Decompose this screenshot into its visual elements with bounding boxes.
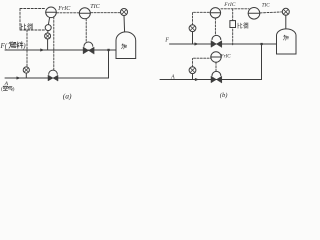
wire: (a) upper pipe flow arrowhead <box>41 49 44 51</box>
svg-text:FrIC: FrIC <box>57 6 71 12</box>
wire: (b) upper pipe arrowhead <box>195 43 198 45</box>
furnace vessel (b) <box>277 29 297 54</box>
signal wire: dashed from ratio box to air flow sensor <box>26 30 28 67</box>
furnace vessel (a) <box>116 32 136 59</box>
svg-text:(: ( <box>1 86 3 93</box>
signal wire: dashed F1C to TIC across top <box>221 8 249 10</box>
node junction (b) <box>261 43 263 45</box>
text labels (a) <box>4 4 101 101</box>
node junction (a) <box>107 49 109 51</box>
transmitter circle below FrIC <box>45 25 51 31</box>
signal wire: dashed TIC to sensor <box>260 12 282 13</box>
svg-text:TIC: TIC <box>262 3 271 9</box>
op: orifice sensor on fuel pipe (a) <box>45 33 51 50</box>
svg-text:A: A <box>170 75 175 81</box>
signal wire: dashed F2C to lower valve <box>215 62 217 71</box>
op: flow sensor (orifice) on air pipe <box>23 67 29 78</box>
op: orifice sensor on (b) lower pipe <box>189 58 210 79</box>
ratio box (b) <box>230 21 236 28</box>
controller FrIC (a) <box>46 7 57 25</box>
label (空气) (a) <box>1 86 15 93</box>
wire transmitter to orifice <box>47 31 49 33</box>
wire: (b) lower pipe <box>160 79 262 81</box>
ratio-station dashed box 比例 (a) <box>20 9 46 31</box>
wire: (a) lower air pipe <box>5 77 109 79</box>
svg-text:F(: F( <box>0 42 8 50</box>
label 炉 (a) <box>122 44 127 49</box>
svg-text:F: F <box>164 37 169 43</box>
label 比例 (b) <box>238 23 248 29</box>
valve on fuel pipe (a) <box>83 42 94 54</box>
svg-text:TIC: TIC <box>90 4 100 10</box>
controller TIC (a) <box>79 8 90 19</box>
wire: (a) air pipe riser to junction <box>108 50 110 78</box>
wire: (b) upper pipe <box>170 43 277 45</box>
svg-text:(a): (a) <box>63 92 72 101</box>
wire: (a) lower pipe flow arrowhead <box>17 77 20 79</box>
signal wire: dashed vertical through ratio box <box>232 9 234 45</box>
signal wire: dashed TIC down to fuel valve <box>85 19 87 41</box>
svg-text:): ) <box>22 42 26 50</box>
svg-text:(b): (b) <box>220 92 228 99</box>
valve on (b) lower pipe <box>211 71 222 82</box>
valve on air pipe (a) <box>48 17 58 81</box>
op: temperature sensor on furnace (a) <box>121 9 128 33</box>
text labels (b) <box>164 2 270 99</box>
svg-text:FrIC: FrIC <box>220 55 232 60</box>
label 炉 (b) <box>283 35 288 40</box>
svg-text:FrIC: FrIC <box>223 2 235 8</box>
label 比例 (a) <box>21 24 32 30</box>
svg-text:): ) <box>13 86 15 93</box>
signal wire: dashed TIC to temperature sensor <box>91 12 121 14</box>
signal wire: dashed F1C to valve <box>214 18 216 35</box>
signal wire: dashed FrIC to TIC <box>57 12 79 14</box>
valve on (b) upper pipe <box>211 35 222 47</box>
wire: (b) riser to junction <box>261 44 263 80</box>
label F(燃料) (a) <box>0 42 26 51</box>
wire: (a) upper fuel pipe <box>5 49 116 51</box>
controller TIC (b) <box>248 8 260 20</box>
controller F1C (b top-left) <box>210 8 220 18</box>
op: temperature sensor on furnace (b) <box>282 8 289 29</box>
op: orifice sensor on (b) upper pipe <box>189 12 210 44</box>
controller F2C (b bottom) <box>211 52 221 62</box>
wire: (b) lower pipe arrowhead <box>195 78 198 80</box>
